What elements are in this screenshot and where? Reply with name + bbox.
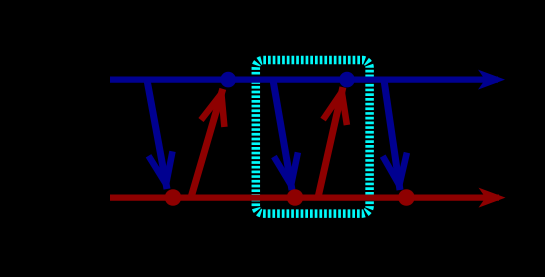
- event dot f2 (red): [287, 189, 304, 206]
- message arrow m2 (red, up): [191, 89, 224, 198]
- process P2 timeline (red): [110, 188, 506, 208]
- event dot f1 (red): [165, 189, 182, 206]
- message arrow m5 (blue, down): [383, 80, 407, 190]
- dotted highlight box: [256, 60, 370, 214]
- event dot f3 (red): [398, 189, 415, 206]
- message arrow m1 (blue, down): [147, 80, 173, 189]
- message arrow m3 (blue, down): [273, 80, 298, 190]
- event dot e1 (blue): [220, 72, 236, 88]
- event dot e2 (blue): [339, 72, 355, 88]
- process P1 timeline (blue): [110, 70, 505, 90]
- message arrow m4 (red, up): [318, 87, 347, 197]
